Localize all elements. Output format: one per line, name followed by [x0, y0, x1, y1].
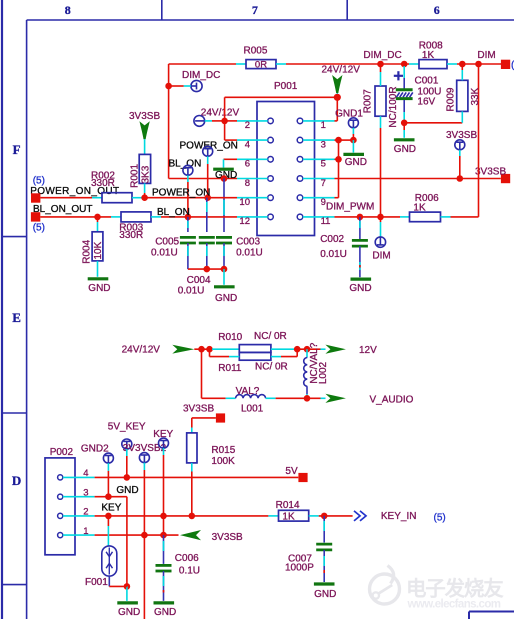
svg-text:0.01U: 0.01U	[320, 249, 347, 260]
svg-text:(5): (5)	[434, 512, 446, 523]
svg-text:5: 5	[321, 159, 326, 170]
svg-text:16V: 16V	[417, 96, 435, 107]
svg-text:R001: R001	[130, 164, 141, 188]
svg-text:GND2: GND2	[81, 443, 109, 454]
svg-text:1000P: 1000P	[285, 562, 314, 573]
svg-text:3K3: 3K3	[140, 165, 151, 183]
svg-text:GND: GND	[314, 589, 336, 600]
svg-text:5V_KEY: 5V_KEY	[108, 421, 146, 432]
svg-text:330R: 330R	[119, 230, 143, 241]
svg-text:BL_ON_OUT: BL_ON_OUT	[33, 204, 92, 215]
svg-text:GND: GND	[394, 144, 416, 155]
svg-text:0.1U: 0.1U	[179, 566, 200, 577]
svg-text:DIM_PWM: DIM_PWM	[326, 201, 374, 212]
svg-text:POWER_ON: POWER_ON	[152, 187, 210, 198]
svg-text:1: 1	[83, 526, 88, 537]
svg-text:12: 12	[239, 216, 250, 227]
svg-text:6: 6	[245, 159, 250, 170]
svg-text:3: 3	[83, 488, 88, 499]
svg-text:0.01U: 0.01U	[151, 248, 178, 259]
svg-text:11: 11	[321, 216, 331, 227]
svg-text:7: 7	[252, 3, 258, 17]
svg-text:C006: C006	[175, 553, 199, 564]
svg-text:C001: C001	[415, 76, 439, 87]
svg-text:NC/ 0R: NC/ 0R	[254, 331, 287, 342]
svg-text:GND: GND	[215, 293, 237, 304]
svg-text:1K: 1K	[282, 512, 295, 523]
svg-text:R004: R004	[82, 239, 93, 263]
svg-text:8: 8	[245, 178, 250, 189]
svg-text:C004: C004	[187, 275, 211, 286]
svg-text:NC/ 0R: NC/ 0R	[255, 362, 288, 373]
svg-text:L002: L002	[318, 361, 329, 384]
svg-text:3V3SB: 3V3SB	[475, 166, 506, 177]
svg-text:GND: GND	[349, 283, 371, 294]
svg-text:R010: R010	[218, 332, 242, 343]
svg-text:4: 4	[83, 468, 88, 479]
svg-text:1K: 1K	[413, 203, 426, 214]
svg-text:10: 10	[239, 197, 250, 208]
svg-text:V_AUDIO: V_AUDIO	[370, 395, 414, 406]
svg-text:电子发烧友: 电子发烧友	[406, 577, 504, 601]
svg-text:330R: 330R	[91, 178, 115, 189]
svg-text:100K: 100K	[211, 456, 235, 467]
svg-text:24V/12V: 24V/12V	[201, 108, 240, 119]
svg-text:GND: GND	[118, 607, 140, 618]
svg-text:DIM: DIM	[477, 50, 495, 61]
svg-text:7: 7	[321, 178, 326, 189]
svg-text:R007: R007	[363, 89, 374, 113]
svg-text:R011: R011	[218, 363, 242, 374]
svg-text:GND: GND	[116, 485, 138, 496]
svg-text:5V: 5V	[285, 466, 298, 477]
svg-text:3V3SB: 3V3SB	[212, 532, 243, 543]
svg-text:2: 2	[83, 507, 88, 518]
svg-text:6: 6	[434, 3, 440, 17]
svg-text:0.01U: 0.01U	[178, 286, 205, 297]
svg-text:BL_ON: BL_ON	[157, 207, 190, 218]
svg-text:GND: GND	[345, 157, 367, 168]
svg-text:GND1: GND1	[335, 108, 363, 119]
svg-text:3: 3	[321, 139, 326, 150]
svg-text:3V3SB: 3V3SB	[183, 404, 214, 415]
svg-text:D: D	[12, 473, 21, 488]
svg-text:DIM_DC: DIM_DC	[182, 70, 220, 81]
svg-text:C005: C005	[155, 237, 179, 248]
svg-text:F: F	[13, 142, 21, 157]
svg-text:0R: 0R	[255, 60, 267, 71]
svg-text:P002: P002	[50, 447, 74, 458]
svg-text:2: 2	[245, 120, 250, 131]
svg-text:E: E	[12, 310, 21, 325]
svg-text:24V/12V: 24V/12V	[122, 344, 161, 355]
svg-text:C002: C002	[320, 234, 344, 245]
svg-text:DIM_DC: DIM_DC	[363, 50, 401, 61]
svg-text:NC/100R: NC/100R	[388, 86, 399, 127]
svg-text:10K: 10K	[93, 241, 104, 259]
svg-text:8: 8	[65, 3, 71, 17]
svg-text:R009: R009	[445, 87, 456, 111]
svg-text:DIM: DIM	[372, 250, 390, 261]
svg-text:www.elecfans.com: www.elecfans.com	[407, 599, 501, 611]
svg-text:1: 1	[321, 120, 326, 131]
svg-text:R005: R005	[244, 45, 268, 56]
svg-text:L001: L001	[241, 404, 264, 415]
svg-text:KEY_IN: KEY_IN	[381, 511, 417, 522]
svg-text:F001: F001	[85, 577, 108, 588]
svg-text:(5): (5)	[33, 175, 45, 186]
svg-text:R014: R014	[276, 500, 300, 511]
svg-text:4: 4	[245, 139, 250, 150]
svg-text:3V3SB: 3V3SB	[129, 111, 160, 122]
svg-text:GND: GND	[154, 607, 176, 618]
svg-text:P001: P001	[274, 81, 298, 92]
svg-text:1K: 1K	[422, 50, 435, 61]
svg-text:24V/12V: 24V/12V	[322, 65, 361, 76]
svg-text:12V: 12V	[359, 345, 377, 356]
svg-text:33K: 33K	[470, 87, 481, 105]
svg-text:GND: GND	[88, 283, 110, 294]
svg-text:0.01U: 0.01U	[236, 248, 263, 259]
svg-text:(5): (5)	[33, 222, 45, 233]
svg-text:VAL?: VAL?	[236, 386, 260, 397]
svg-text:C003: C003	[236, 237, 260, 248]
svg-text:R015: R015	[211, 445, 235, 456]
svg-text:KEY: KEY	[101, 502, 121, 513]
